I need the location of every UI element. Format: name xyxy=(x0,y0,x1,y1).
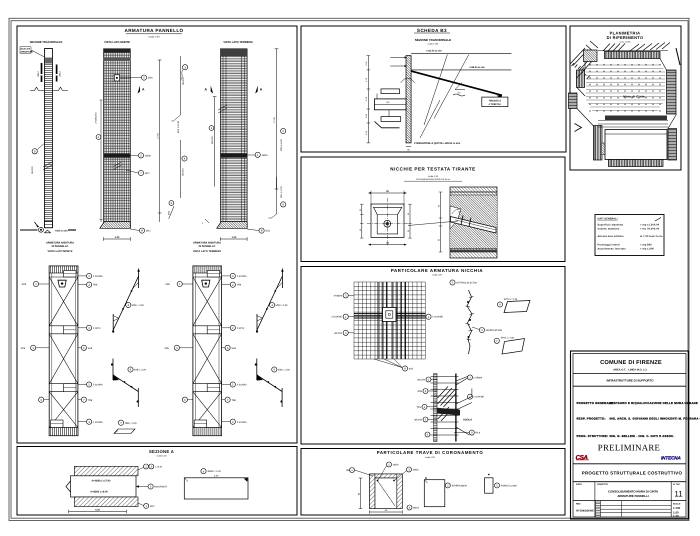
svg-text:Autorimesse interrate: Autorimesse interrate xyxy=(598,248,627,251)
vertical snake bar xyxy=(467,290,472,354)
svg-text:scala 1:20: scala 1:20 xyxy=(157,455,168,458)
svg-text:SP12 L=1.55: SP12 L=1.55 xyxy=(504,298,518,301)
svg-text:00 EMISSIONE: 00 EMISSIONE xyxy=(576,510,594,513)
C2 callout 7 xyxy=(126,170,138,173)
anchor bucket xyxy=(58,280,66,287)
svg-text:Ø12: Ø12 xyxy=(150,505,155,508)
svg-text:PROGETTO GENERALE:: PROGETTO GENERALE: xyxy=(577,401,614,405)
svg-text:Mura di Cinta: Mura di Cinta xyxy=(623,95,645,99)
C2 base xyxy=(100,222,131,229)
plan: north arrow chevron xyxy=(575,124,582,132)
beam right callouts xyxy=(144,464,149,469)
C3 dark mid band xyxy=(221,153,248,157)
form row 2 xyxy=(577,417,700,421)
svg-text:STAFFA Ø8/20: STAFFA Ø8/20 xyxy=(452,484,468,487)
svg-text:Ø12 L=3.20: Ø12 L=3.20 xyxy=(280,185,283,197)
svg-text:ING. G. BELLESI - ING. C. NUTI: ING. G. BELLESI - ING. C. NUTI E ASSOC. xyxy=(610,434,675,438)
parallelogram plate 1 xyxy=(504,301,530,313)
svg-text:17.90: 17.90 xyxy=(156,132,159,138)
svg-text:= mc 78.400,00: = mc 78.400,00 xyxy=(640,228,660,231)
svg-text:4+4Ø26 L=6.40: 4+4Ø26 L=6.40 xyxy=(90,491,108,494)
svg-text:2Ø16: 2Ø16 xyxy=(393,464,399,467)
left dim xyxy=(361,204,363,238)
C3 base xyxy=(217,222,248,229)
svg-text:2 SP12: 2 SP12 xyxy=(93,327,101,330)
svg-text:TR 8: TR 8 xyxy=(475,432,481,435)
X-column A callouts left xyxy=(31,281,44,402)
plan: left boundary diagonals xyxy=(577,62,594,127)
svg-text:PRELIMINARE: PRELIMINARE xyxy=(598,443,660,453)
svg-text:11: 11 xyxy=(674,490,683,499)
ladder leaders to right callouts xyxy=(456,377,472,436)
left dim of section xyxy=(440,192,442,252)
svg-text:2 GUAINE: 2 GUAINE xyxy=(331,316,342,319)
panel frame: PARTICOLARE ARMATURA NICCHIA xyxy=(301,267,565,445)
beam body xyxy=(71,476,137,497)
left vertical dim line xyxy=(367,56,369,143)
plan: right hatched band upper xyxy=(667,70,677,114)
top band xyxy=(49,266,78,273)
svg-text:2 GUAINE: 2 GUAINE xyxy=(432,316,443,319)
svg-text:AREA O.T. - LINEA M.O. 1.3: AREA O.T. - LINEA M.O. 1.3 xyxy=(613,368,647,371)
svg-text:REV.: REV. xyxy=(576,502,581,505)
svg-text:2 SP8/M: 2 SP8/M xyxy=(473,376,482,379)
svg-text:SP12 L=1.00: SP12 L=1.00 xyxy=(501,337,515,340)
second level line xyxy=(411,69,511,71)
svg-text:SEZIONE A: SEZIONE A xyxy=(149,449,174,454)
svg-text:17.90: 17.90 xyxy=(273,116,276,122)
svg-text:= mq 1.600: = mq 1.600 xyxy=(640,248,655,251)
svg-text:Ø12/20: Ø12/20 xyxy=(31,166,34,174)
beam left chevron xyxy=(66,481,71,492)
X-column A body xyxy=(49,266,78,436)
svg-text:L=6.40: L=6.40 xyxy=(155,466,163,469)
svg-text:Ø26 L=6.30: Ø26 L=6.30 xyxy=(280,138,283,150)
svg-text:2Ø12: 2Ø12 xyxy=(58,71,61,77)
ladder callouts right xyxy=(468,375,475,435)
beam top hatch strip xyxy=(74,466,138,476)
svg-text:2 SCARS: 2 SCARS xyxy=(237,384,247,387)
C2 anchor box xyxy=(114,75,119,81)
form row 3 xyxy=(577,434,675,438)
svg-text:ARMATURE: ARMATURE xyxy=(21,50,34,53)
heavier middle verticals xyxy=(378,282,406,359)
svg-text:4.30: 4.30 xyxy=(95,509,100,512)
centerlines xyxy=(367,223,408,225)
C3 right dim lines xyxy=(276,49,278,189)
left dim xyxy=(360,478,362,509)
svg-text:FORCELLA Ø8: FORCELLA Ø8 xyxy=(501,484,517,487)
svg-text:SP8: SP8 xyxy=(22,283,27,286)
trave section: hatched U xyxy=(370,474,403,509)
svg-text:INTECNA: INTECNA xyxy=(661,455,681,460)
rod step leader xyxy=(455,83,465,90)
svg-text:TR8: TR8 xyxy=(237,284,242,287)
bottom dim xyxy=(370,244,405,246)
svg-text:+141.50 m slm: +141.50 m slm xyxy=(426,50,442,53)
svg-text:SP8 L=4.90: SP8 L=4.90 xyxy=(132,304,145,307)
small dim under wall xyxy=(406,146,411,148)
base band xyxy=(49,428,78,436)
svg-text:2 SP12: 2 SP12 xyxy=(237,327,245,330)
svg-text:COMUNE DI FIRENZE: COMUNE DI FIRENZE xyxy=(600,360,662,366)
plan: interior column ticks xyxy=(590,64,660,112)
plan: upper-left diagonal ladder strips xyxy=(570,48,596,79)
svg-text:4Ø26: 4Ø26 xyxy=(145,154,152,157)
svg-text:2 SCARS: 2 SCARS xyxy=(237,421,247,424)
panel frame: SCHEDA B3 xyxy=(301,26,566,152)
svg-text:m 7,00 fuori terra: m 7,00 fuori terra xyxy=(640,235,663,238)
C1 diagonal ticks xyxy=(43,162,52,170)
svg-text:4.30: 4.30 xyxy=(214,475,219,478)
svg-text:15°: 15° xyxy=(457,92,460,95)
mid row cells xyxy=(594,482,596,501)
svg-text:TR8 L=3.20: TR8 L=3.20 xyxy=(125,422,138,425)
svg-text:scala 1:1000: scala 1:1000 xyxy=(620,41,631,44)
svg-text:Ø12 L=6.40: Ø12 L=6.40 xyxy=(177,120,180,133)
svg-text:scala 1:20: scala 1:20 xyxy=(428,175,439,178)
right bar rectangle xyxy=(184,478,248,499)
data table xyxy=(595,215,664,256)
panel frame: title block double xyxy=(571,351,689,519)
ground line xyxy=(411,52,511,54)
svg-text:15°: 15° xyxy=(458,211,461,214)
X-column A zigzag detail upper xyxy=(113,269,138,334)
top chord lines xyxy=(450,191,497,193)
rebar grid mesh xyxy=(354,282,425,359)
C2 callout 4 xyxy=(182,156,187,161)
plan: right boundary diagonal xyxy=(660,59,667,71)
detail: plate with parallelogram xyxy=(118,420,123,425)
C2 dark top band xyxy=(104,49,131,53)
plan: lower-right hatched band xyxy=(668,129,677,161)
form row 1 xyxy=(577,401,698,405)
C3 small left tick xyxy=(205,219,209,223)
svg-text:Ø26: Ø26 xyxy=(148,77,153,80)
bottom chord lines xyxy=(450,247,497,249)
svg-text:scala 1:100: scala 1:100 xyxy=(428,42,439,45)
panel frame: left big ARMATURA PANNELLO xyxy=(17,26,297,443)
svg-text:2 SCARS: 2 SCARS xyxy=(93,275,103,278)
leader from trapezoid to pipe xyxy=(408,221,458,226)
C3 section marks xyxy=(211,86,214,94)
svg-text:2Ø16: 2Ø16 xyxy=(413,469,419,472)
svg-text:SP8: SP8 xyxy=(165,283,170,286)
svg-text:6+6Ø26: 6+6Ø26 xyxy=(334,294,343,297)
svg-text:Ø12/20: Ø12/20 xyxy=(182,77,185,85)
svg-text:SP8: SP8 xyxy=(21,347,26,350)
C2 callout 3 xyxy=(183,65,188,70)
splice plates xyxy=(51,271,77,428)
svg-text:8Ø14: 8Ø14 xyxy=(413,507,419,510)
svg-text:SEZIONE TRASVERSALE: SEZIONE TRASVERSALE xyxy=(30,41,63,44)
plan: main floor hatch lines xyxy=(586,65,665,111)
plan: lower hall outline xyxy=(605,130,667,160)
C2 lower tick detail xyxy=(169,206,174,219)
anchor head stack xyxy=(381,89,400,94)
svg-text:DETTAGLIO Ø=700: DETTAGLIO Ø=700 xyxy=(456,282,477,285)
parallelogram plate 2 xyxy=(502,339,525,355)
svg-text:VISTA LATO TERRENO: VISTA LATO TERRENO xyxy=(193,250,221,253)
svg-text:VISTA LATO MONTE: VISTA LATO MONTE xyxy=(48,250,73,253)
svg-text:FONDAZIONE A QUOTA +128.50 m s: FONDAZIONE A QUOTA +128.50 m slm xyxy=(414,142,461,145)
svg-text:DATA: DATA xyxy=(576,483,582,486)
svg-text:1:100: 1:100 xyxy=(673,506,681,510)
svg-text:2 SCARS: 2 SCARS xyxy=(237,275,247,278)
pipe cross ticks xyxy=(461,216,463,225)
plan: bottom-left vertical strip xyxy=(594,126,603,161)
svg-text:= mq 11.200,00: = mq 11.200,00 xyxy=(640,224,660,227)
trave callouts xyxy=(350,468,355,473)
svg-text:2Ø12: 2Ø12 xyxy=(37,71,40,77)
bottom row cells xyxy=(594,501,596,517)
svg-text:ARMATURE PANNELLI: ARMATURE PANNELLI xyxy=(617,494,649,498)
plan: top roof diagonal strokes xyxy=(586,41,670,52)
svg-text:SA8 L=4.20: SA8 L=4.20 xyxy=(134,369,147,372)
svg-text:2 GUAINE: 2 GUAINE xyxy=(473,396,484,399)
svg-text:SA8 L=4.20: SA8 L=4.20 xyxy=(278,369,291,372)
svg-text:Ø12/20: Ø12/20 xyxy=(334,332,342,335)
svg-text:4Ø26: 4Ø26 xyxy=(262,154,269,157)
X-column B callouts left xyxy=(174,281,187,402)
dark horizontal band through mesh xyxy=(354,314,425,318)
svg-text:NICCHIE PER TESTATA TIRANTE: NICCHIE PER TESTATA TIRANTE xyxy=(390,166,475,171)
svg-text:VISTA LATO MONTE: VISTA LATO MONTE xyxy=(104,41,130,44)
svg-text:Volume massimo: Volume massimo xyxy=(598,228,620,231)
C2 right dim line 1 xyxy=(159,60,161,222)
svg-text:1.20: 1.20 xyxy=(232,236,237,239)
svg-text:2 SCARS: 2 SCARS xyxy=(93,384,103,387)
bottom dim + callout xyxy=(370,511,403,513)
beam bottom hatch strip xyxy=(74,497,138,507)
C1 side rebar bars xyxy=(42,63,57,82)
C3 left dim xyxy=(214,97,216,187)
svg-text:2+2Ø12/20: 2+2Ø12/20 xyxy=(95,112,98,124)
svg-text:ASOLA: ASOLA xyxy=(463,419,472,422)
svg-text:RESP. PROGETTO:: RESP. PROGETTO: xyxy=(577,417,606,421)
svg-text:4+4Ø26 L=17.90: 4+4Ø26 L=17.90 xyxy=(92,480,112,483)
center anchor box xyxy=(383,308,397,322)
svg-text:SA8: SA8 xyxy=(88,347,93,350)
C2 right dim line 2 xyxy=(179,56,181,115)
panel frame: PARTICOLARE TRAVE xyxy=(301,449,565,516)
svg-text:Ø12/20: Ø12/20 xyxy=(414,419,422,422)
svg-text:INFRASTRUTTURE DI SUPPORTO: INFRASTRUTTURE DI SUPPORTO xyxy=(606,378,654,382)
svg-text:PARTICOLARE ARMATURA NICCHIA: PARTICOLARE ARMATURA NICCHIA xyxy=(391,268,484,273)
C2 dark mid band xyxy=(104,153,131,157)
svg-text:Ø26: Ø26 xyxy=(418,390,423,393)
top-left tick arrows xyxy=(390,58,404,67)
right small rect xyxy=(485,478,493,493)
svg-text:PROG. STRUTTURE:: PROG. STRUTTURE: xyxy=(577,434,609,438)
svg-text:TPS: TPS xyxy=(417,406,422,409)
niche void xyxy=(450,206,461,229)
X-column B zigzag detail upper xyxy=(257,269,282,334)
X-column A zigzag detail lower xyxy=(113,359,138,408)
svg-text:scala 1:20: scala 1:20 xyxy=(432,274,442,277)
panel frame: PLANIMETRIA xyxy=(570,26,681,170)
X-column B zigzag detail lower xyxy=(257,359,282,408)
mesh callout right xyxy=(426,314,431,319)
svg-text:scala 1:20: scala 1:20 xyxy=(425,456,435,459)
arc over wall xyxy=(401,78,415,83)
svg-text:Ø12: Ø12 xyxy=(146,230,151,233)
ladder diagonal hatch group xyxy=(438,387,456,422)
svg-text:TR8: TR8 xyxy=(93,284,98,287)
svg-text:4Ø26 L=4.40: 4Ø26 L=4.40 xyxy=(207,470,221,473)
svg-text:SP8 L=4.90: SP8 L=4.90 xyxy=(275,304,288,307)
beam bottom dim xyxy=(69,511,127,513)
svg-text:4 TREFOLI: 4 TREFOLI xyxy=(489,103,502,106)
ladder hatched block xyxy=(437,408,460,416)
plan: bottom hatched band xyxy=(609,160,664,167)
section detail: hatched block xyxy=(450,187,497,258)
tie rod xyxy=(411,71,502,95)
svg-text:Ø12: Ø12 xyxy=(145,172,150,175)
svg-text:CON DIMENSIONI ESPRESSE IN cm: CON DIMENSIONI ESPRESSE IN cm xyxy=(416,178,450,181)
plan: mid dark band above hall xyxy=(605,116,667,121)
svg-text:DATI GENERALI: DATI GENERALI xyxy=(598,218,618,221)
C2 bottom dim xyxy=(104,238,131,240)
svg-text:VISTA LATO TERRENO: VISTA LATO TERRENO xyxy=(223,41,252,44)
X braces xyxy=(49,277,78,428)
niche center rosette xyxy=(384,220,391,227)
svg-text:RESTAURO E RIQUALIFICAZIONE DE: RESTAURO E RIQUALIFICAZIONE DELLE MURA U… xyxy=(610,401,698,405)
svg-text:SEZIONE TRASVERSALE: SEZIONE TRASVERSALE xyxy=(415,38,451,42)
C1 base xyxy=(45,221,53,227)
middle rect: staffa xyxy=(424,480,445,507)
ladder callouts left xyxy=(422,377,431,437)
revision hatch strip xyxy=(596,501,601,517)
svg-text:SCALA B: SCALA B xyxy=(21,48,31,51)
svg-text:1.20: 1.20 xyxy=(115,236,120,239)
C2 section mark A xyxy=(138,86,141,94)
svg-text:DI PANNELLO: DI PANNELLO xyxy=(52,245,69,248)
svg-text:N. TAV: N. TAV xyxy=(673,483,680,486)
right dim xyxy=(409,204,411,238)
detail B header xyxy=(450,280,455,285)
svg-text:Ø12: Ø12 xyxy=(266,230,271,233)
svg-text:SA8: SA8 xyxy=(232,347,237,350)
X-column B body (copy of A shifted) xyxy=(193,266,222,436)
svg-text:Ø12/20: Ø12/20 xyxy=(211,136,214,144)
svg-text:MONTANTE: MONTANTE xyxy=(154,486,167,489)
svg-text:scala 1:50: scala 1:50 xyxy=(149,36,161,39)
svg-text:Superficie massima: Superficie massima xyxy=(598,224,624,227)
tirante label box xyxy=(482,97,508,107)
column C1 body xyxy=(45,49,53,228)
C1 mid callout xyxy=(32,149,37,154)
svg-text:1:20: 1:20 xyxy=(673,514,679,518)
svg-text:+138.50 m slm: +138.50 m slm xyxy=(469,66,485,69)
svg-text:= mq 850: = mq 850 xyxy=(640,244,652,247)
svg-text:Ø12: Ø12 xyxy=(409,368,414,371)
X-column B callouts right xyxy=(225,273,235,424)
svg-text:DI PANNELLO: DI PANNELLO xyxy=(199,245,216,248)
plan: upper-left hatched square xyxy=(584,50,598,62)
tirante pipe xyxy=(451,217,497,234)
X-column A callouts right xyxy=(81,273,91,424)
svg-text:OGGETTO: OGGETTO xyxy=(597,483,608,486)
ladder detail xyxy=(434,374,437,442)
svg-text:ARMATURA PANNELLO: ARMATURA PANNELLO xyxy=(124,28,183,33)
svg-text:CONSOLIDAMENTO MURA DI CINTA: CONSOLIDAMENTO MURA DI CINTA xyxy=(608,489,659,493)
svg-text:PROGETTO STRUTTURALE COSTRUTTI: PROGETTO STRUTTURALE COSTRUTTIVO xyxy=(582,471,683,476)
svg-text:ING. ARCH. S. GIOVANNI DEGLI I: ING. ARCH. S. GIOVANNI DEGLI INNOCENTI M… xyxy=(610,417,700,421)
svg-text:SCHEDA B3: SCHEDA B3 xyxy=(417,28,447,33)
svg-text:SP8: SP8 xyxy=(164,347,169,350)
panel frame: NICCHIE xyxy=(301,157,565,262)
C3 bottom dim xyxy=(221,238,248,240)
mesh bottom leader xyxy=(374,359,402,368)
plan: left vertical hatch strips xyxy=(577,70,585,88)
svg-text:2 SCARS: 2 SCARS xyxy=(93,421,103,424)
svg-text:PARTICOLARE TRAVE DI CORONAMEN: PARTICOLARE TRAVE DI CORONAMENTO xyxy=(377,450,484,455)
svg-text:Ø12/20: Ø12/20 xyxy=(181,168,184,176)
panel frame: SEZIONE A xyxy=(17,447,297,516)
mesh callouts left xyxy=(343,293,348,336)
plan: top hatched band xyxy=(605,52,661,59)
svg-text:TR8: TR8 xyxy=(88,399,93,402)
rails xyxy=(49,277,78,428)
svg-text:Parcheggi interni: Parcheggi interni xyxy=(598,244,621,247)
C1 break marks xyxy=(30,87,44,90)
svg-text:-0.60 m slm: -0.60 m slm xyxy=(55,229,68,232)
svg-text:DI RIFERIMENTO: DI RIFERIMENTO xyxy=(607,35,644,40)
svg-text:GHIERA Ø=650: GHIERA Ø=650 xyxy=(486,329,503,332)
niche front view outer rect xyxy=(371,204,404,238)
svg-text:Altezza max edificio: Altezza max edificio xyxy=(598,235,625,238)
wall hatched strip xyxy=(406,56,411,143)
svg-text:TR8: TR8 xyxy=(232,399,237,402)
top dim xyxy=(370,192,405,194)
drill diagonal lines xyxy=(424,55,447,126)
niche trapezoid xyxy=(374,207,402,234)
svg-text:Ø12/20: Ø12/20 xyxy=(417,379,425,382)
